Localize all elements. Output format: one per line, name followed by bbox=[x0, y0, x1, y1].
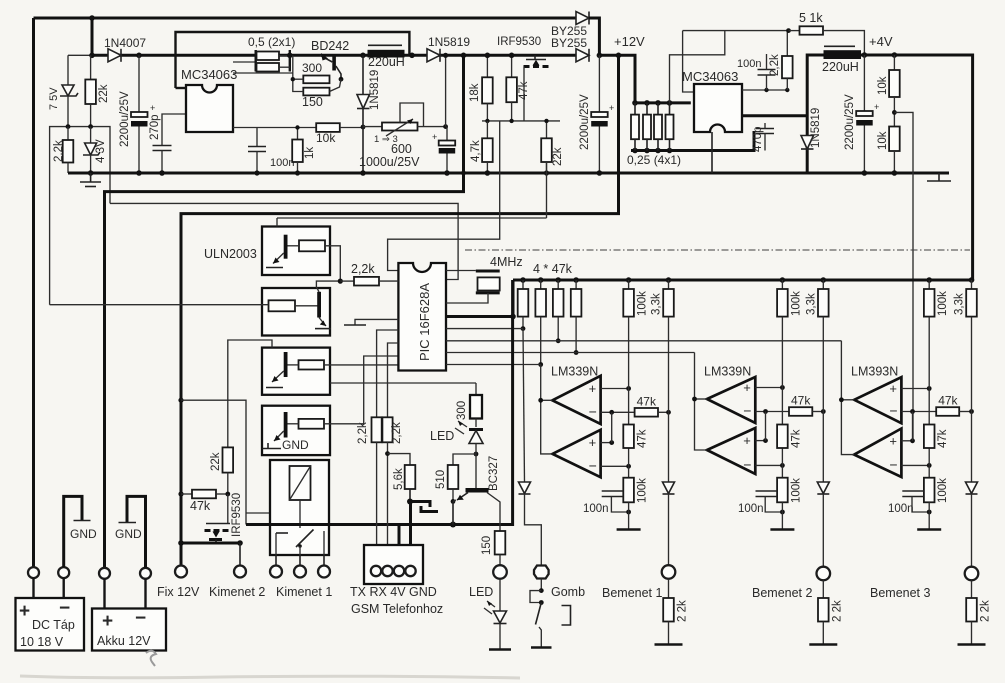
svg-text:100n: 100n bbox=[738, 503, 764, 515]
resistor 2,2k pic input bbox=[340, 280, 354, 282]
resistor 47k p3 bbox=[555, 277, 561, 283]
svg-text:4 * 47k: 4 * 47k bbox=[533, 262, 573, 276]
resistor 47k feedback horizontal bbox=[635, 408, 658, 417]
svg-text:+4V: +4V bbox=[869, 34, 893, 49]
svg-text:BY255: BY255 bbox=[551, 36, 587, 50]
node after 1N4007 bbox=[89, 53, 95, 59]
svg-text:−: − bbox=[589, 457, 597, 473]
svg-text:3,3k: 3,3k bbox=[805, 293, 817, 315]
svg-text:47k: 47k bbox=[190, 499, 211, 513]
svg-text:2,2k: 2,2k bbox=[391, 422, 403, 444]
svg-text:Kimenet 1: Kimenet 1 bbox=[276, 585, 332, 599]
wire switch node to inductor bbox=[807, 55, 824, 172]
capacitor 470p bbox=[756, 128, 774, 130]
svg-text:47k: 47k bbox=[938, 394, 958, 408]
svg-text:10 18 V: 10 18 V bbox=[20, 635, 64, 649]
resistor 2,2k input bbox=[971, 580, 973, 598]
wire ground bus bbox=[68, 172, 949, 175]
svg-text:Bemenet 3: Bemenet 3 bbox=[870, 586, 931, 600]
wire MC2 gnd pin bbox=[711, 132, 713, 173]
resistor 47k vertical bbox=[777, 425, 788, 449]
svg-text:+: + bbox=[743, 433, 751, 448]
svg-text:4MHz: 4MHz bbox=[490, 255, 523, 269]
svg-text:LM339N: LM339N bbox=[704, 365, 751, 379]
resistor 300 bbox=[303, 76, 329, 84]
svg-text:+: + bbox=[589, 381, 597, 396]
svg-text:−: − bbox=[589, 403, 597, 419]
wire divider tap to LM393 bbox=[894, 112, 913, 440]
resistor 47k fix bbox=[178, 491, 183, 496]
svg-text:Bemenet 1: Bemenet 1 bbox=[602, 586, 663, 600]
svg-text:2,2k: 2,2k bbox=[769, 54, 781, 76]
svg-text:DC Táp: DC Táp bbox=[32, 618, 75, 632]
driver cell 3 bbox=[262, 348, 330, 395]
wire inputs bbox=[901, 388, 929, 390]
ground symbol bbox=[928, 502, 930, 529]
svg-text:MC34063: MC34063 bbox=[682, 69, 738, 84]
transistor BC327 bbox=[466, 488, 489, 493]
svg-text:2,2k: 2,2k bbox=[357, 422, 369, 444]
switch Gomb bbox=[540, 579, 542, 591]
svg-text:3,3k: 3,3k bbox=[651, 293, 663, 315]
svg-text:4,7k: 4,7k bbox=[470, 140, 482, 162]
svg-text:LM339N: LM339N bbox=[551, 365, 598, 379]
diode input clamp bbox=[971, 412, 973, 483]
terminal Kimenet 1 bbox=[275, 555, 277, 566]
svg-text:+: + bbox=[743, 380, 751, 395]
resistor 47k feedback horizontal bbox=[936, 407, 959, 416]
svg-text:+: + bbox=[889, 433, 897, 448]
svg-text:7 5V: 7 5V bbox=[48, 87, 60, 110]
resistor 100k top bbox=[626, 277, 632, 283]
svg-text:100n: 100n bbox=[737, 58, 761, 70]
svg-text:Kimenet 2: Kimenet 2 bbox=[209, 585, 265, 599]
capacitor 2200u/25V no1 bbox=[138, 55, 140, 112]
svg-text:10k: 10k bbox=[877, 131, 889, 150]
wire LED drive bbox=[330, 382, 476, 384]
svg-text:+12V: +12V bbox=[614, 34, 645, 49]
svg-text:2 2k: 2 2k bbox=[980, 600, 992, 622]
capacitor 100n bbox=[602, 490, 624, 492]
svg-text:100n: 100n bbox=[583, 503, 609, 515]
wire PIC button line bbox=[446, 328, 523, 330]
ground stub PIC left bbox=[355, 319, 398, 324]
resistor 47k p2 bbox=[538, 277, 544, 283]
wire drop to diode row bbox=[91, 18, 94, 55]
comparator LM339N s1 A bbox=[552, 376, 600, 424]
resistor 22k power bbox=[546, 121, 548, 138]
wire +12V bbox=[599, 55, 635, 103]
svg-text:100k: 100k bbox=[637, 478, 649, 503]
svg-text:300: 300 bbox=[456, 401, 468, 420]
svg-text:0,5 (2x1): 0,5 (2x1) bbox=[248, 35, 295, 49]
ground stub DC bbox=[64, 496, 82, 567]
svg-text:2,2k: 2,2k bbox=[53, 140, 65, 162]
svg-text:100k: 100k bbox=[790, 291, 802, 316]
inductor 220uH no2 bbox=[824, 45, 855, 47]
diode BY255 lower bbox=[576, 49, 589, 62]
terminal Fix 12V bbox=[175, 566, 187, 578]
inductor 220uH no1 bbox=[368, 44, 402, 46]
svg-text:18k: 18k bbox=[469, 83, 481, 102]
resistor 22k top-left bbox=[90, 55, 92, 79]
svg-text:LED: LED bbox=[469, 585, 493, 599]
svg-text:IRF9530: IRF9530 bbox=[231, 493, 243, 537]
svg-text:2200u/25V: 2200u/25V bbox=[119, 91, 131, 147]
svg-text:2200u/25V: 2200u/25V bbox=[844, 94, 856, 150]
wire akku rail bbox=[105, 55, 464, 568]
wire base resistor bars bbox=[293, 55, 304, 91]
driver cell 2 bbox=[262, 288, 330, 336]
resistor 47k vertical bbox=[924, 425, 935, 449]
zener 4.3V bbox=[90, 127, 92, 143]
comparator LM339N s1 B bbox=[552, 430, 600, 477]
resistor 100k top bbox=[926, 277, 932, 283]
bracket glyph bbox=[562, 606, 571, 626]
resistor 2,2k input bbox=[822, 580, 824, 598]
connector Akku box bbox=[92, 609, 166, 651]
terminal Bemenet 1 bbox=[662, 565, 676, 579]
svg-text:−: − bbox=[59, 598, 70, 619]
resistor 2.2k top-left bbox=[67, 127, 69, 140]
svg-text:BD242: BD242 bbox=[311, 39, 349, 53]
resistor 1k bbox=[297, 128, 299, 140]
wire thick 4V bus bbox=[246, 280, 513, 525]
svg-text:−: − bbox=[743, 403, 751, 419]
svg-text:+: + bbox=[874, 102, 879, 112]
svg-text:300: 300 bbox=[302, 61, 322, 75]
resistor 5,6k bbox=[388, 454, 411, 465]
LED indicator diode bbox=[469, 428, 483, 431]
svg-text:47k: 47k bbox=[790, 429, 802, 448]
wire +12V feed to logic box bbox=[181, 55, 619, 566]
connector bracket b bbox=[421, 506, 438, 512]
svg-text:47k: 47k bbox=[937, 429, 949, 448]
svg-text:100k: 100k bbox=[937, 478, 949, 503]
svg-text:+: + bbox=[102, 611, 113, 632]
svg-text:2,2k: 2,2k bbox=[351, 262, 375, 276]
svg-text:+: + bbox=[609, 103, 614, 113]
terminal Akku minus bbox=[140, 568, 151, 579]
relay drive wire bbox=[178, 398, 183, 403]
svg-text:47k: 47k bbox=[637, 394, 657, 408]
resistor 10k lower bbox=[889, 127, 900, 152]
svg-text:2200u/25V: 2200u/25V bbox=[579, 94, 591, 150]
wire gate divider node bbox=[482, 120, 560, 122]
resistor 3,3k top bbox=[666, 277, 672, 283]
driver cell 1 bbox=[262, 227, 330, 276]
svg-text:−: − bbox=[889, 456, 897, 472]
terminal DC minus bbox=[58, 567, 69, 578]
resistor 10k horizontal bbox=[316, 123, 340, 132]
terminal Akku plus bbox=[99, 568, 110, 579]
transistor BD242 bbox=[332, 56, 336, 71]
node junction top bbox=[89, 15, 95, 21]
wire PIC comp2 line bbox=[446, 352, 695, 354]
potentiometer 600 bbox=[363, 126, 382, 128]
svg-text:TX RX 4V GND: TX RX 4V GND bbox=[350, 585, 437, 599]
wire MC2 switch pin bbox=[742, 114, 807, 117]
capacitor 100n bbox=[902, 490, 924, 492]
wire 4.3V supply to PIC bbox=[110, 203, 458, 279]
scan artifact bottom bbox=[20, 676, 520, 678]
svg-text:600: 600 bbox=[391, 142, 412, 156]
svg-text:1N5819: 1N5819 bbox=[810, 108, 822, 148]
wire second bus bbox=[68, 54, 92, 56]
resistor 100k vertical bbox=[924, 478, 935, 503]
capacitor 2200u/25V no3 bbox=[863, 55, 865, 111]
diode 1N4007 bbox=[108, 49, 121, 62]
resistor 510 bbox=[474, 452, 479, 457]
resistor 5,1k bbox=[789, 30, 800, 32]
resistor 300 led bbox=[475, 383, 477, 395]
driver cell 4 bbox=[262, 406, 330, 455]
connector GSM box bbox=[364, 545, 423, 584]
svg-text:+: + bbox=[432, 132, 437, 142]
svg-text:1000u/25V: 1000u/25V bbox=[359, 155, 420, 169]
wire top bus +in bbox=[34, 17, 577, 20]
wire divider to PIC MCLR bbox=[388, 121, 500, 271]
wire 4.3V regulator frame bbox=[50, 127, 110, 305]
comparator LM339N s2 B bbox=[707, 428, 755, 474]
resistor 4,7k bbox=[486, 121, 488, 138]
terminal Kimenet 2 bbox=[234, 566, 246, 578]
svg-text:4 3V: 4 3V bbox=[95, 139, 107, 163]
resistor 18k bbox=[486, 55, 488, 77]
resistor 2,2k rx bbox=[382, 417, 392, 442]
terminal Bemenet 2 bbox=[817, 567, 831, 581]
svg-text:GND: GND bbox=[115, 527, 142, 541]
zener 7.5V bbox=[67, 55, 69, 85]
svg-text:PIC 16F628A: PIC 16F628A bbox=[417, 283, 432, 361]
svg-text:150: 150 bbox=[302, 95, 323, 109]
diode input clamp bbox=[668, 412, 670, 482]
ground symbol right bbox=[938, 173, 940, 181]
svg-text:2 2k: 2 2k bbox=[831, 600, 843, 622]
svg-text:100k: 100k bbox=[637, 291, 649, 316]
svg-text:Gomb: Gomb bbox=[551, 585, 585, 599]
resistor 47k feedback horizontal bbox=[789, 407, 812, 416]
resistor 47k p4 bbox=[573, 277, 579, 283]
wire PIC comp3 line bbox=[446, 340, 841, 342]
svg-text:Fix 12V: Fix 12V bbox=[157, 585, 200, 599]
svg-text:47k: 47k bbox=[791, 394, 811, 408]
wire output column bbox=[541, 365, 553, 454]
capacitor 270p bbox=[162, 114, 186, 145]
svg-text:5 1k: 5 1k bbox=[799, 11, 823, 25]
wire 22k to cell3 bbox=[228, 340, 272, 447]
ground symbol bbox=[781, 502, 783, 529]
svg-text:−: − bbox=[889, 403, 897, 419]
wire resistor column bbox=[628, 317, 630, 503]
svg-text:47k: 47k bbox=[637, 429, 649, 448]
dash-dot section divider bbox=[465, 249, 970, 251]
wire resistor column bbox=[781, 317, 783, 503]
wire MC2 fb pin bbox=[742, 89, 787, 91]
svg-text:Akku 12V: Akku 12V bbox=[97, 634, 151, 648]
wire output column bbox=[695, 353, 708, 451]
wire cell2 input from regulator bbox=[50, 304, 269, 306]
wire +4V bus bbox=[861, 55, 973, 281]
svg-text:−: − bbox=[743, 456, 751, 472]
resistor 100k vertical bbox=[623, 478, 634, 503]
diode BY255 top bbox=[576, 12, 589, 25]
resistor 47k p1 bbox=[520, 277, 526, 283]
resistor 2,2k tx bbox=[372, 417, 382, 442]
ground symbol left bbox=[90, 173, 92, 182]
resistor 150 bbox=[303, 88, 329, 96]
svg-text:1k: 1k bbox=[304, 147, 316, 159]
svg-text:0,25 (4x1): 0,25 (4x1) bbox=[627, 153, 681, 167]
svg-text:1N5819: 1N5819 bbox=[369, 70, 381, 110]
connector bracket a bbox=[411, 502, 430, 508]
svg-text:10k: 10k bbox=[316, 131, 336, 145]
svg-text:150: 150 bbox=[481, 536, 493, 555]
svg-text:−: − bbox=[135, 608, 146, 629]
svg-text:+: + bbox=[889, 381, 897, 396]
diode 1N5819 vertical bbox=[362, 55, 364, 94]
wire reference line bbox=[277, 217, 547, 219]
svg-text:GND: GND bbox=[282, 438, 309, 452]
svg-text:5,6k: 5,6k bbox=[393, 468, 405, 490]
svg-text:+: + bbox=[19, 601, 30, 622]
wire cell4 to PIC bbox=[324, 356, 398, 424]
wire output column bbox=[841, 341, 854, 455]
wire inputs bbox=[601, 388, 629, 390]
resistor 100k vertical bbox=[777, 478, 788, 503]
terminal Bemenet 3 bbox=[965, 567, 979, 581]
terminal Gomb bbox=[534, 566, 549, 579]
resistor 3,3k top bbox=[821, 277, 827, 283]
svg-text:1N5819: 1N5819 bbox=[428, 35, 470, 49]
ground stub Akku bbox=[127, 496, 146, 567]
comparator LM393N s3 B bbox=[854, 429, 901, 478]
wire MC1 pins right bbox=[233, 61, 256, 63]
capacitor 1000u/25V bbox=[446, 127, 448, 141]
svg-text:22k: 22k bbox=[210, 452, 222, 471]
resistor 22k uln bbox=[223, 447, 234, 472]
svg-text:470p: 470p bbox=[752, 126, 764, 152]
wire PIC TX line bbox=[377, 330, 399, 417]
diode input clamp bbox=[822, 412, 824, 483]
svg-text:270p: 270p bbox=[149, 114, 161, 140]
svg-text:100k: 100k bbox=[937, 291, 949, 316]
svg-text:BC327: BC327 bbox=[488, 456, 500, 491]
svg-text:220uH: 220uH bbox=[822, 60, 859, 74]
wire resistor column bbox=[928, 317, 930, 503]
resistor 47k vertical bbox=[623, 425, 634, 449]
svg-text:GSM Telefonhoz: GSM Telefonhoz bbox=[351, 602, 443, 616]
resistor 100k top bbox=[780, 277, 786, 283]
capacitor 2200u/25V no2 bbox=[598, 55, 600, 112]
IC MC34063 no2 bbox=[694, 84, 742, 132]
svg-text:22k: 22k bbox=[98, 84, 110, 103]
relay box bbox=[270, 460, 329, 555]
svg-text:LED: LED bbox=[430, 429, 454, 443]
wire PIC comp1 line bbox=[446, 364, 541, 366]
capacitor 100n no1 bbox=[256, 128, 258, 147]
ground symbol bbox=[628, 502, 630, 529]
svg-text:1N4007: 1N4007 bbox=[104, 36, 146, 50]
svg-text:100n: 100n bbox=[270, 157, 294, 169]
svg-text:10k: 10k bbox=[877, 76, 889, 95]
svg-text:MC34063: MC34063 bbox=[181, 67, 237, 82]
wire PIC RX line bbox=[388, 343, 399, 417]
svg-text:3,3k: 3,3k bbox=[954, 293, 966, 315]
diode 1N5819 horizontal bbox=[427, 49, 440, 62]
svg-text:100k: 100k bbox=[790, 478, 802, 503]
capacitor 100n bbox=[756, 490, 778, 492]
comparator LM339N s2 A bbox=[707, 377, 755, 423]
svg-text:2 2k: 2 2k bbox=[677, 600, 689, 622]
svg-text:Bemenet 2: Bemenet 2 bbox=[752, 586, 813, 600]
wire MC34063 feedback loop bbox=[176, 32, 410, 88]
resistor 3,3k top bbox=[969, 277, 975, 283]
terminal DC plus bbox=[28, 567, 39, 578]
wire button pullup bbox=[523, 329, 525, 482]
terminal LED bbox=[493, 565, 507, 579]
comparator LM393N s3 A bbox=[854, 377, 901, 423]
resistor 0,5 (2x1) pair bbox=[254, 50, 256, 72]
LED external diode bbox=[499, 579, 501, 611]
resistor network 0,25 (4x1) bbox=[635, 101, 691, 104]
svg-text:+: + bbox=[150, 103, 155, 113]
resistor 2,2k input bbox=[668, 579, 670, 598]
wire inputs bbox=[755, 387, 782, 389]
resistor 150 bbox=[495, 531, 506, 555]
svg-text:220uH: 220uH bbox=[368, 55, 405, 69]
resistor 47k power bbox=[511, 55, 513, 77]
diode 1N5819 no3 bbox=[801, 136, 814, 150]
svg-text:ULN2003: ULN2003 bbox=[204, 247, 257, 261]
svg-text:510: 510 bbox=[435, 470, 447, 489]
wire feedback top MC2 bbox=[683, 31, 694, 92]
svg-text:IRF9530: IRF9530 bbox=[497, 36, 541, 48]
svg-text:22k: 22k bbox=[552, 147, 564, 166]
resistor 10k upper bbox=[893, 55, 895, 70]
svg-text:100n: 100n bbox=[888, 503, 914, 515]
svg-text:GND: GND bbox=[70, 527, 97, 541]
svg-text:LM393N: LM393N bbox=[851, 365, 898, 379]
diode button clamp bbox=[519, 482, 531, 494]
wire fix12V node bbox=[181, 542, 240, 545]
resistor 2,2k mc2 bbox=[786, 31, 788, 56]
svg-text:+: + bbox=[589, 435, 597, 450]
crystal 4MHz bbox=[446, 270, 476, 272]
IC MC34063 no1 bbox=[186, 85, 233, 132]
wire left feed from DC Tap plus bbox=[32, 18, 35, 567]
connector DC Tap box bbox=[16, 598, 85, 651]
